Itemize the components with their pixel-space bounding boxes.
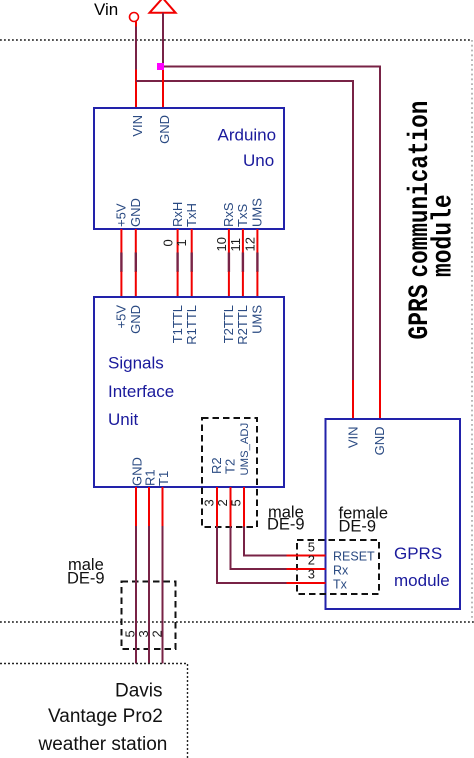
- svg-text:GND: GND: [157, 115, 172, 144]
- power symbol (triangle): [150, 0, 176, 13]
- wire T1 to weather station: [162, 487, 164, 664]
- wire GND net horizontal to GPRS GND: [163, 67, 380, 381]
- wire GND Arduino to Signals: [135, 229, 137, 297]
- connector male DE-9 dashed box (bottom): [122, 582, 176, 650]
- svg-text:2: 2: [150, 630, 165, 637]
- svg-text:T2: T2: [223, 459, 238, 474]
- svg-text:TxH: TxH: [184, 203, 199, 227]
- svg-text:Interface: Interface: [108, 382, 174, 401]
- svg-text:DE-9: DE-9: [339, 518, 377, 536]
- wire Vin net: stub below circle: [135, 22, 137, 28]
- svg-text:VIN: VIN: [345, 427, 360, 449]
- Signals Interface Unit box U2: [94, 297, 284, 487]
- pin Rx of GPRS (stub): [287, 568, 326, 570]
- svg-text:Signals: Signals: [108, 354, 164, 373]
- wire Vin net horizontal to GPRS VIN: [136, 81, 353, 381]
- svg-text:3: 3: [308, 567, 315, 582]
- wire T2 to GPRS Rx: [231, 487, 288, 569]
- svg-text:+5V: +5V: [114, 203, 129, 227]
- svg-text:2: 2: [308, 553, 315, 568]
- svg-text:1: 1: [174, 239, 189, 246]
- svg-text:DE-9: DE-9: [67, 570, 105, 588]
- module boundary bottom (weather station region top): [0, 621, 474, 623]
- wire TxH/R1TTL pin 1: [191, 229, 193, 297]
- wire RxS/T2TTL pin 10: [228, 229, 230, 297]
- svg-text:12: 12: [243, 237, 258, 251]
- wire GND net vertical from triangle: [162, 13, 164, 70]
- svg-text:GND: GND: [128, 198, 143, 227]
- svg-text:Unit: Unit: [108, 410, 139, 429]
- GPRS module box U3: [326, 419, 461, 609]
- port Vin terminal circle: [130, 13, 139, 22]
- svg-text:Uno: Uno: [243, 151, 274, 170]
- pin VIN of Arduino: [135, 70, 137, 109]
- wire TxS/R2TTL pin 11: [242, 229, 244, 297]
- wire RxH/T1TTL pin 0: [177, 229, 179, 297]
- wire UMS_ADJ to GPRS RESET: [244, 487, 287, 556]
- svg-text:GPRS: GPRS: [394, 544, 442, 563]
- svg-text:GND: GND: [128, 305, 143, 334]
- svg-text:RESET: RESET: [333, 550, 375, 564]
- module boundary top (GPRS communication module region): [0, 39, 472, 41]
- svg-text:Vantage Pro2: Vantage Pro2: [48, 706, 163, 727]
- svg-text:RxS: RxS: [221, 202, 236, 227]
- svg-text:T1TTL: T1TTL: [170, 305, 185, 343]
- wire +5V Arduino to Signals: [120, 229, 122, 297]
- svg-text:Davis: Davis: [115, 681, 163, 702]
- svg-text:UMS: UMS: [250, 305, 265, 334]
- wire UMS pin 12: [256, 229, 258, 297]
- pin GND of GPRS module: [379, 380, 381, 419]
- svg-text:VIN: VIN: [130, 115, 145, 137]
- svg-text:10: 10: [214, 237, 229, 251]
- pin GND of Arduino: [162, 70, 164, 109]
- pin VIN of GPRS module: [352, 380, 354, 419]
- svg-text:Tx: Tx: [333, 578, 348, 592]
- svg-text:GPRS: GPRS: [404, 284, 436, 339]
- svg-text:T1: T1: [156, 471, 171, 486]
- wire GND Signals to weather station: [135, 487, 137, 664]
- module boundary right: [471, 40, 473, 619]
- connector female DE-9 dashed box: [297, 540, 379, 594]
- svg-text:TxS: TxS: [235, 204, 250, 227]
- svg-text:Rx: Rx: [333, 564, 349, 578]
- svg-text:Arduino: Arduino: [218, 126, 277, 145]
- op Arduino Uno box U1: [94, 108, 284, 229]
- svg-text:UMS_ADJ: UMS_ADJ: [239, 423, 251, 476]
- svg-text:weather station: weather station: [38, 734, 168, 755]
- Davis weather station dotted box: [0, 664, 188, 758]
- svg-text:DE-9: DE-9: [267, 516, 305, 534]
- svg-text:T2TTL: T2TTL: [221, 305, 236, 343]
- svg-text:11: 11: [228, 238, 243, 252]
- svg-text:+5V: +5V: [114, 305, 129, 329]
- svg-text:RxH: RxH: [170, 202, 185, 227]
- pin Tx of GPRS (stub): [287, 582, 326, 584]
- junction dot on GND net: [157, 63, 164, 70]
- pin RESET of GPRS (stub): [287, 555, 326, 557]
- wire R2 to GPRS Tx: [217, 487, 287, 583]
- svg-text:GND: GND: [372, 427, 387, 456]
- wire R1 to weather station: [148, 487, 150, 664]
- wire Vin net vertical: [135, 27, 137, 71]
- svg-text:R1TTL: R1TTL: [184, 305, 199, 345]
- svg-text:module: module: [428, 194, 460, 277]
- svg-text:Vin: Vin: [94, 0, 118, 19]
- connector male DE-9 dashed box (UMS_ADJ side): [202, 418, 257, 527]
- svg-text:module: module: [394, 571, 450, 590]
- svg-text:UMS: UMS: [250, 198, 265, 227]
- svg-text:R2TTL: R2TTL: [235, 305, 250, 345]
